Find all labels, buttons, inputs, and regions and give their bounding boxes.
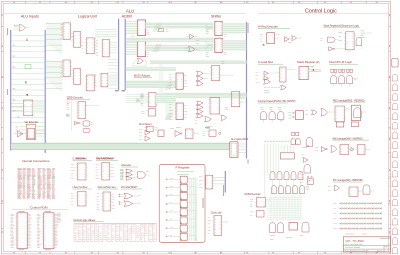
svg-text:Zero Detect: Zero Detect <box>139 123 152 126</box>
svg-text:Logical Unit: Logical Unit <box>78 15 97 19</box>
svg-text:xClk out/Stop Seq: xClk out/Stop Seq <box>98 186 117 189</box>
svg-text:Stack Register (2): Stack Register (2) <box>297 60 319 64</box>
svg-text:Document Number: Document Number <box>345 246 360 249</box>
svg-text:Internal Connections: Internal Connections <box>22 159 50 163</box>
svg-text:I-Decoder: I-Decoder <box>121 164 131 167</box>
svg-text:ADDR: ADDR <box>122 15 133 19</box>
svg-text:REV: REV <box>385 246 388 248</box>
svg-text:ALU Inputs: ALU Inputs <box>21 15 39 19</box>
svg-text:Interrupt Detect/PC/DC INC (WC: Interrupt Detect/PC/DC INC (WCHP) <box>258 100 296 103</box>
svg-text:Control Logic Values: Control Logic Values <box>73 219 96 222</box>
svg-text:A: A <box>26 38 29 42</box>
svg-text:ALU output MUX: ALU output MUX <box>231 138 249 141</box>
svg-text:Clock_bar: Clock_bar <box>211 212 222 215</box>
svg-text:BCD Adjust: BCD Adjust <box>134 73 150 77</box>
svg-text:Var Extender: Var Extender <box>25 121 39 124</box>
svg-text:C/BD Decoder: C/BD Decoder <box>67 97 83 100</box>
svg-text:Intern/PC IR Logic: Intern/PC IR Logic <box>329 60 352 64</box>
svg-text:Control ROM: Control ROM <box>30 205 48 209</box>
svg-text:CPI - TTL 6502: CPI - TTL 6502 <box>346 239 365 243</box>
svg-text:C-Seq Extend: C-Seq Extend <box>73 158 88 161</box>
svg-text:Control Logic: Control Logic <box>305 9 337 15</box>
svg-text:P Register: P Register <box>176 165 190 169</box>
svg-text:I/O buffer/DMA?: I/O buffer/DMA? <box>121 186 138 189</box>
svg-text:Seq. Any Extend: Seq. Any Extend <box>96 158 113 161</box>
svg-text:Shifter: Shifter <box>211 15 222 19</box>
svg-text:Stack Register(s)/Sequencer Lo: Stack Register(s)/Sequencer Logic <box>323 24 359 27</box>
svg-text:C-Load Mux: C-Load Mux <box>258 60 274 64</box>
svg-text:Sheet: 1/1: Sheet: 1/1 <box>377 249 385 252</box>
svg-text:Date: 4/25/2012 12:57:50 PM: Date: 4/25/2012 12:57:50 PM <box>345 249 369 252</box>
svg-text:ALU: ALU <box>126 8 134 13</box>
svg-text:B: B <box>25 81 27 85</box>
svg-text:W Reg Decoder: W Reg Decoder <box>258 25 278 29</box>
svg-text:ID BR Decoder: ID BR Decoder <box>245 193 261 196</box>
